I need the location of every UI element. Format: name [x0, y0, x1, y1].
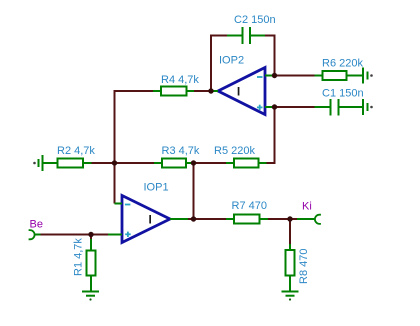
svg-text:R1 4,7k: R1 4,7k — [73, 238, 85, 276]
ground below R8 — [282, 292, 299, 301]
input pin Be — [29, 230, 41, 239]
junction node R2/R3 — [112, 160, 117, 165]
resistor R3 — [154, 159, 194, 168]
wire R4 left + vertical to IOP1 minus — [115, 91, 154, 204]
svg-text:C2 150n: C2 150n — [234, 14, 276, 26]
capacitor C2 — [227, 27, 265, 44]
wire Ki node down to R8 — [289, 219, 291, 245]
svg-text:Ki: Ki — [302, 201, 312, 213]
resistor R4 — [153, 87, 194, 96]
ground below R1 — [82, 292, 99, 301]
resistor R7 — [226, 215, 268, 224]
svg-text:R5 220k: R5 220k — [214, 145, 255, 157]
wire feedback node down to IOP1 output — [193, 163, 195, 219]
capacitor C1 — [315, 99, 364, 116]
wire IOP2 plus to C1 — [275, 106, 315, 108]
wire IOP2 minus to R6 — [275, 75, 315, 77]
svg-text:IOP2: IOP2 — [219, 55, 244, 67]
op-amp IOP1 — [108, 196, 188, 243]
wire node down to R1 — [90, 235, 92, 243]
wire node to R3 — [115, 162, 155, 164]
svg-text:Be: Be — [30, 219, 43, 231]
svg-text:R3 4,7k: R3 4,7k — [162, 145, 200, 157]
svg-text:R6 220k: R6 220k — [322, 58, 363, 70]
wire IOP1 output to R7 — [188, 218, 226, 220]
junction node IOP2 plus — [272, 104, 277, 109]
resistor R1 — [87, 239, 96, 292]
svg-text:R8 470: R8 470 — [298, 249, 310, 284]
svg-text:R4 4,7k: R4 4,7k — [161, 74, 199, 86]
svg-text:IOP1: IOP1 — [144, 182, 169, 194]
resistor R6 — [315, 71, 364, 80]
wire R4 right to node — [194, 90, 211, 92]
svg-text:R2 4,7k: R2 4,7k — [57, 145, 95, 157]
wire R7 to Ki node — [268, 218, 297, 220]
terminal pin left of R2 — [33, 155, 42, 171]
svg-text:C1 150n: C1 150n — [322, 88, 364, 100]
terminal pin right of C1 — [363, 99, 373, 115]
svg-text:R7 470: R7 470 — [232, 200, 267, 212]
junction node IOP1 output — [191, 216, 196, 221]
wire C2 right vertical — [265, 36, 275, 76]
wire Be to IOP1 plus — [41, 234, 109, 236]
wire C2 left vertical — [211, 36, 227, 92]
junction node IOP2 minus — [272, 73, 277, 78]
resistor R2 — [43, 159, 92, 168]
wire IOP2 plus down to R5 — [267, 107, 275, 163]
output pin Ki — [297, 215, 321, 224]
resistor R8 — [286, 244, 295, 292]
op-amp IOP2 — [211, 68, 275, 115]
junction node R3/R5 — [191, 160, 196, 165]
junction node Ki/R8 — [287, 216, 292, 221]
junction node R4/C2/IOP2 out — [208, 88, 213, 93]
junction node Be/R1 — [88, 232, 93, 237]
wire R3/R5 node to R5 — [194, 162, 227, 164]
terminal pin right of R6 — [363, 68, 373, 84]
resistor R5 — [226, 159, 267, 168]
wire R2 to node — [92, 162, 115, 164]
